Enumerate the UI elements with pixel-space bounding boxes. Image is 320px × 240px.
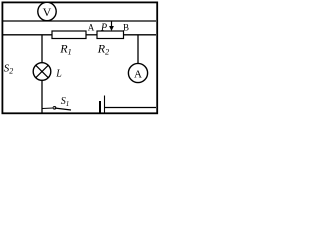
wire right of R2 (124, 34, 157, 36)
svg-text:A: A (134, 68, 142, 80)
wire lamp lower stub (41, 80, 43, 113)
svg-text:A: A (88, 23, 95, 33)
wire ammeter upper stub (137, 35, 139, 64)
lamp L (33, 63, 51, 81)
slider P arrow (109, 21, 114, 31)
wire lamp upper stub (41, 35, 43, 63)
switch S1 (43, 106, 72, 110)
wire between R1 and R2 (86, 34, 97, 36)
wire bottom right segment (105, 107, 157, 109)
wire second horizontal left segment (3, 34, 53, 36)
svg-text:P: P (100, 22, 107, 33)
resistor R1 (52, 31, 86, 39)
svg-text:V: V (43, 5, 52, 19)
voltmeter V (38, 2, 56, 20)
svg-text:B: B (123, 23, 129, 33)
outer circuit loop wire (figure border) (2, 2, 157, 113)
rheostat R2 (97, 31, 124, 39)
svg-text:L: L (55, 69, 62, 80)
wire top horizontal (3, 20, 156, 22)
ammeter A (128, 63, 147, 82)
battery cell (100, 96, 105, 113)
